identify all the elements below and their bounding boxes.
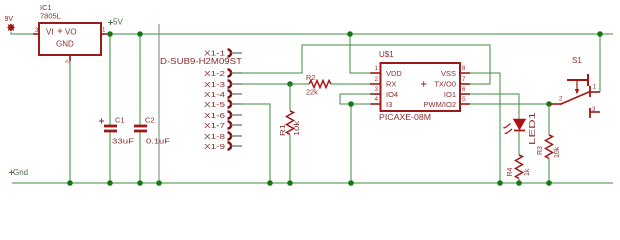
svg-text:6: 6 xyxy=(462,86,466,93)
svg-text:VI: VI xyxy=(46,28,54,37)
svg-text:1k: 1k xyxy=(524,168,531,176)
pin 1 of IC1 xyxy=(101,33,107,35)
svg-text:U$1: U$1 xyxy=(379,50,394,59)
wire 9V to regulator input xyxy=(11,32,34,34)
junction at 500,183 xyxy=(497,180,503,186)
wire PWM/IO2 pin5 to switch xyxy=(470,103,549,105)
svg-text:5: 5 xyxy=(462,96,466,103)
pin 3 of IC1 xyxy=(33,33,39,35)
svg-text:10k: 10k xyxy=(554,146,561,158)
wire VSS to ground xyxy=(470,73,500,183)
svg-text:X1-1: X1-1 xyxy=(204,51,225,58)
svg-text:IO4: IO4 xyxy=(386,90,398,99)
svg-text:X1-6: X1-6 xyxy=(204,113,225,120)
pin 2 of IC1 xyxy=(69,55,71,61)
junction at 351,183 xyxy=(348,180,354,186)
pin 3 U$1 xyxy=(370,93,381,95)
svg-text:4: 4 xyxy=(375,96,379,103)
pin 2 U$1 xyxy=(370,83,381,85)
svg-text:X1-8: X1-8 xyxy=(204,134,225,141)
svg-text:RX: RX xyxy=(386,80,396,89)
junction at 159,183 xyxy=(156,180,162,186)
capacitor C1 xyxy=(99,31,135,186)
wire IO1 pin6 to LED xyxy=(470,94,519,120)
plunger arrow xyxy=(576,81,578,89)
svg-text:TX/O0: TX/O0 xyxy=(434,80,456,89)
resistor R1 xyxy=(280,84,301,186)
junction at 70,183 xyxy=(67,180,73,186)
wire IO4 pin3 down xyxy=(340,94,371,104)
wire I3 pin4 to ground xyxy=(351,104,371,183)
svg-text:33uF: 33uF xyxy=(112,137,135,146)
svg-text:1: 1 xyxy=(375,65,379,72)
connector pin X1-2 xyxy=(204,69,242,78)
LED LED1 xyxy=(503,111,537,155)
svg-text:C1: C1 xyxy=(115,116,125,125)
svg-text:R3: R3 xyxy=(537,146,544,155)
svg-text:9V: 9V xyxy=(5,16,14,23)
junction at 600,34 xyxy=(597,31,603,37)
svg-text:10k: 10k xyxy=(294,120,301,136)
connector pin X1-1 xyxy=(204,49,242,57)
resistor R3 xyxy=(537,104,561,186)
pin 5 U$1 xyxy=(460,103,470,105)
junction at 351,104 xyxy=(348,101,354,107)
pin 1 U$1 xyxy=(370,72,381,74)
pin 6 U$1 xyxy=(460,93,470,95)
svg-text:VO: VO xyxy=(65,28,77,37)
svg-text:X1-5: X1-5 xyxy=(204,102,225,109)
wire switch to 5V rail xyxy=(599,34,601,92)
connector pin X1-9 xyxy=(204,142,242,151)
svg-text:PWM/IO2: PWM/IO2 xyxy=(423,100,456,109)
svg-text:LED1: LED1 xyxy=(528,111,537,145)
wire X1-2 to U1 pin7 (over the top) xyxy=(241,45,490,84)
wire top 5V rail xyxy=(106,33,613,35)
svg-text:22k: 22k xyxy=(306,88,318,97)
svg-text:5V: 5V xyxy=(113,18,123,27)
resistor R4 xyxy=(507,155,531,186)
junction at 270,183 xyxy=(267,180,273,186)
svg-text:2: 2 xyxy=(375,76,379,83)
svg-text:3: 3 xyxy=(592,106,596,113)
actuator bar xyxy=(567,79,588,81)
wire bottom Gnd rail xyxy=(12,182,613,184)
wire VDD to 5V rail xyxy=(350,34,371,73)
connector pin X1-6 xyxy=(204,111,242,120)
svg-text:C2: C2 xyxy=(145,116,155,125)
svg-text:X1-4: X1-4 xyxy=(204,92,225,99)
pin 2 stub xyxy=(549,103,562,105)
wire vertical net at x159 xyxy=(158,24,160,183)
junction at 549,104 xyxy=(546,101,552,107)
svg-text:R4: R4 xyxy=(507,167,514,176)
svg-text:7805L: 7805L xyxy=(40,12,61,21)
svg-text:S1: S1 xyxy=(572,56,582,65)
contact 3 xyxy=(589,108,591,118)
svg-text:7: 7 xyxy=(462,76,466,83)
connector pin X1-5 xyxy=(204,100,242,109)
pin 7 U$1 xyxy=(460,83,470,85)
switch S1 xyxy=(549,56,600,118)
svg-text:X1-7: X1-7 xyxy=(204,123,225,130)
junction at 350,34 xyxy=(347,31,353,37)
capacitor C2 xyxy=(134,31,171,186)
pin 4 U$1 xyxy=(370,103,381,105)
svg-text:X1-2: X1-2 xyxy=(204,71,225,78)
lever xyxy=(561,92,590,105)
svg-text:I3: I3 xyxy=(386,100,392,109)
svg-text:VSS: VSS xyxy=(441,69,456,78)
svg-text:2: 2 xyxy=(65,60,72,64)
svg-text:2: 2 xyxy=(559,96,563,103)
pin 8 U$1 xyxy=(460,72,470,74)
svg-text:GND: GND xyxy=(56,40,74,49)
IC U$1 PICAXE-08M xyxy=(379,50,460,122)
contact 1 xyxy=(589,86,591,97)
svg-text:IO1: IO1 xyxy=(444,90,456,99)
wire IC1 GND to rail xyxy=(69,61,71,183)
connector pin X1-7 xyxy=(204,121,242,130)
connector pin X1-3 xyxy=(204,80,242,89)
svg-text:PICAXE-08M: PICAXE-08M xyxy=(379,113,431,122)
wire C1 top xyxy=(109,34,111,125)
wire X1-5 to ground xyxy=(241,104,270,183)
wire X1-3 to R2 xyxy=(241,83,309,85)
svg-text:X1-9: X1-9 xyxy=(204,144,225,151)
svg-text:1: 1 xyxy=(102,27,106,34)
svg-text:0.1uF: 0.1uF xyxy=(146,137,171,146)
svg-text:D-SUB9-H2M09ST: D-SUB9-H2M09ST xyxy=(160,57,242,66)
svg-text:3: 3 xyxy=(375,86,379,93)
wire C2 top xyxy=(139,34,141,125)
svg-text:8: 8 xyxy=(462,65,466,72)
svg-text:X1-3: X1-3 xyxy=(204,82,225,89)
svg-text:Gnd: Gnd xyxy=(13,168,28,177)
svg-text:1: 1 xyxy=(593,84,597,91)
svg-text:VDD: VDD xyxy=(386,69,402,78)
svg-text:R1: R1 xyxy=(280,124,287,136)
resistor R2 xyxy=(306,73,373,97)
supply +9V symbol xyxy=(7,24,15,32)
svg-text:R2: R2 xyxy=(306,73,315,82)
regulator IC1 7805L xyxy=(39,3,101,55)
connector pin X1-4 xyxy=(204,90,242,99)
wire C2 bottom xyxy=(139,132,141,183)
connector pin X1-8 xyxy=(204,132,242,141)
svg-text:3: 3 xyxy=(35,27,39,34)
junction node X1-3/R1/R2 xyxy=(287,81,293,87)
wire C1 bottom xyxy=(109,132,111,183)
